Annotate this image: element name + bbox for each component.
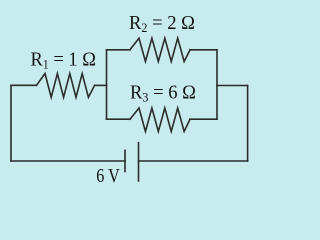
svg-text:R3 = 6 Ω: R3 = 6 Ω: [130, 81, 196, 104]
wire top-left horizontal: [11, 84, 37, 86]
svg-text:R1 = 1 Ω: R1 = 1 Ω: [31, 48, 97, 71]
wire right node to right side: [217, 85, 248, 87]
svg-text:R2 = 2 Ω: R2 = 2 Ω: [129, 12, 195, 35]
battery short plate: [124, 150, 126, 171]
wire R3 output: [190, 118, 217, 120]
svg-text:6 V: 6 V: [96, 165, 120, 187]
resistor R3: [130, 108, 190, 132]
battery long plate: [138, 143, 140, 181]
wire left vertical: [10, 85, 12, 161]
node left vertical bus: [106, 50, 108, 119]
wire bottom left: [11, 160, 125, 162]
wire R1 to left node: [95, 84, 107, 86]
resistor R1: [37, 74, 95, 98]
resistor R2: [130, 38, 190, 61]
wire bottom right: [139, 160, 248, 162]
wire R2 output: [190, 49, 217, 51]
wire R3 input: [107, 118, 131, 120]
wire right vertical: [247, 86, 249, 162]
node right vertical bus: [216, 50, 218, 119]
wire R2 input: [107, 49, 131, 51]
